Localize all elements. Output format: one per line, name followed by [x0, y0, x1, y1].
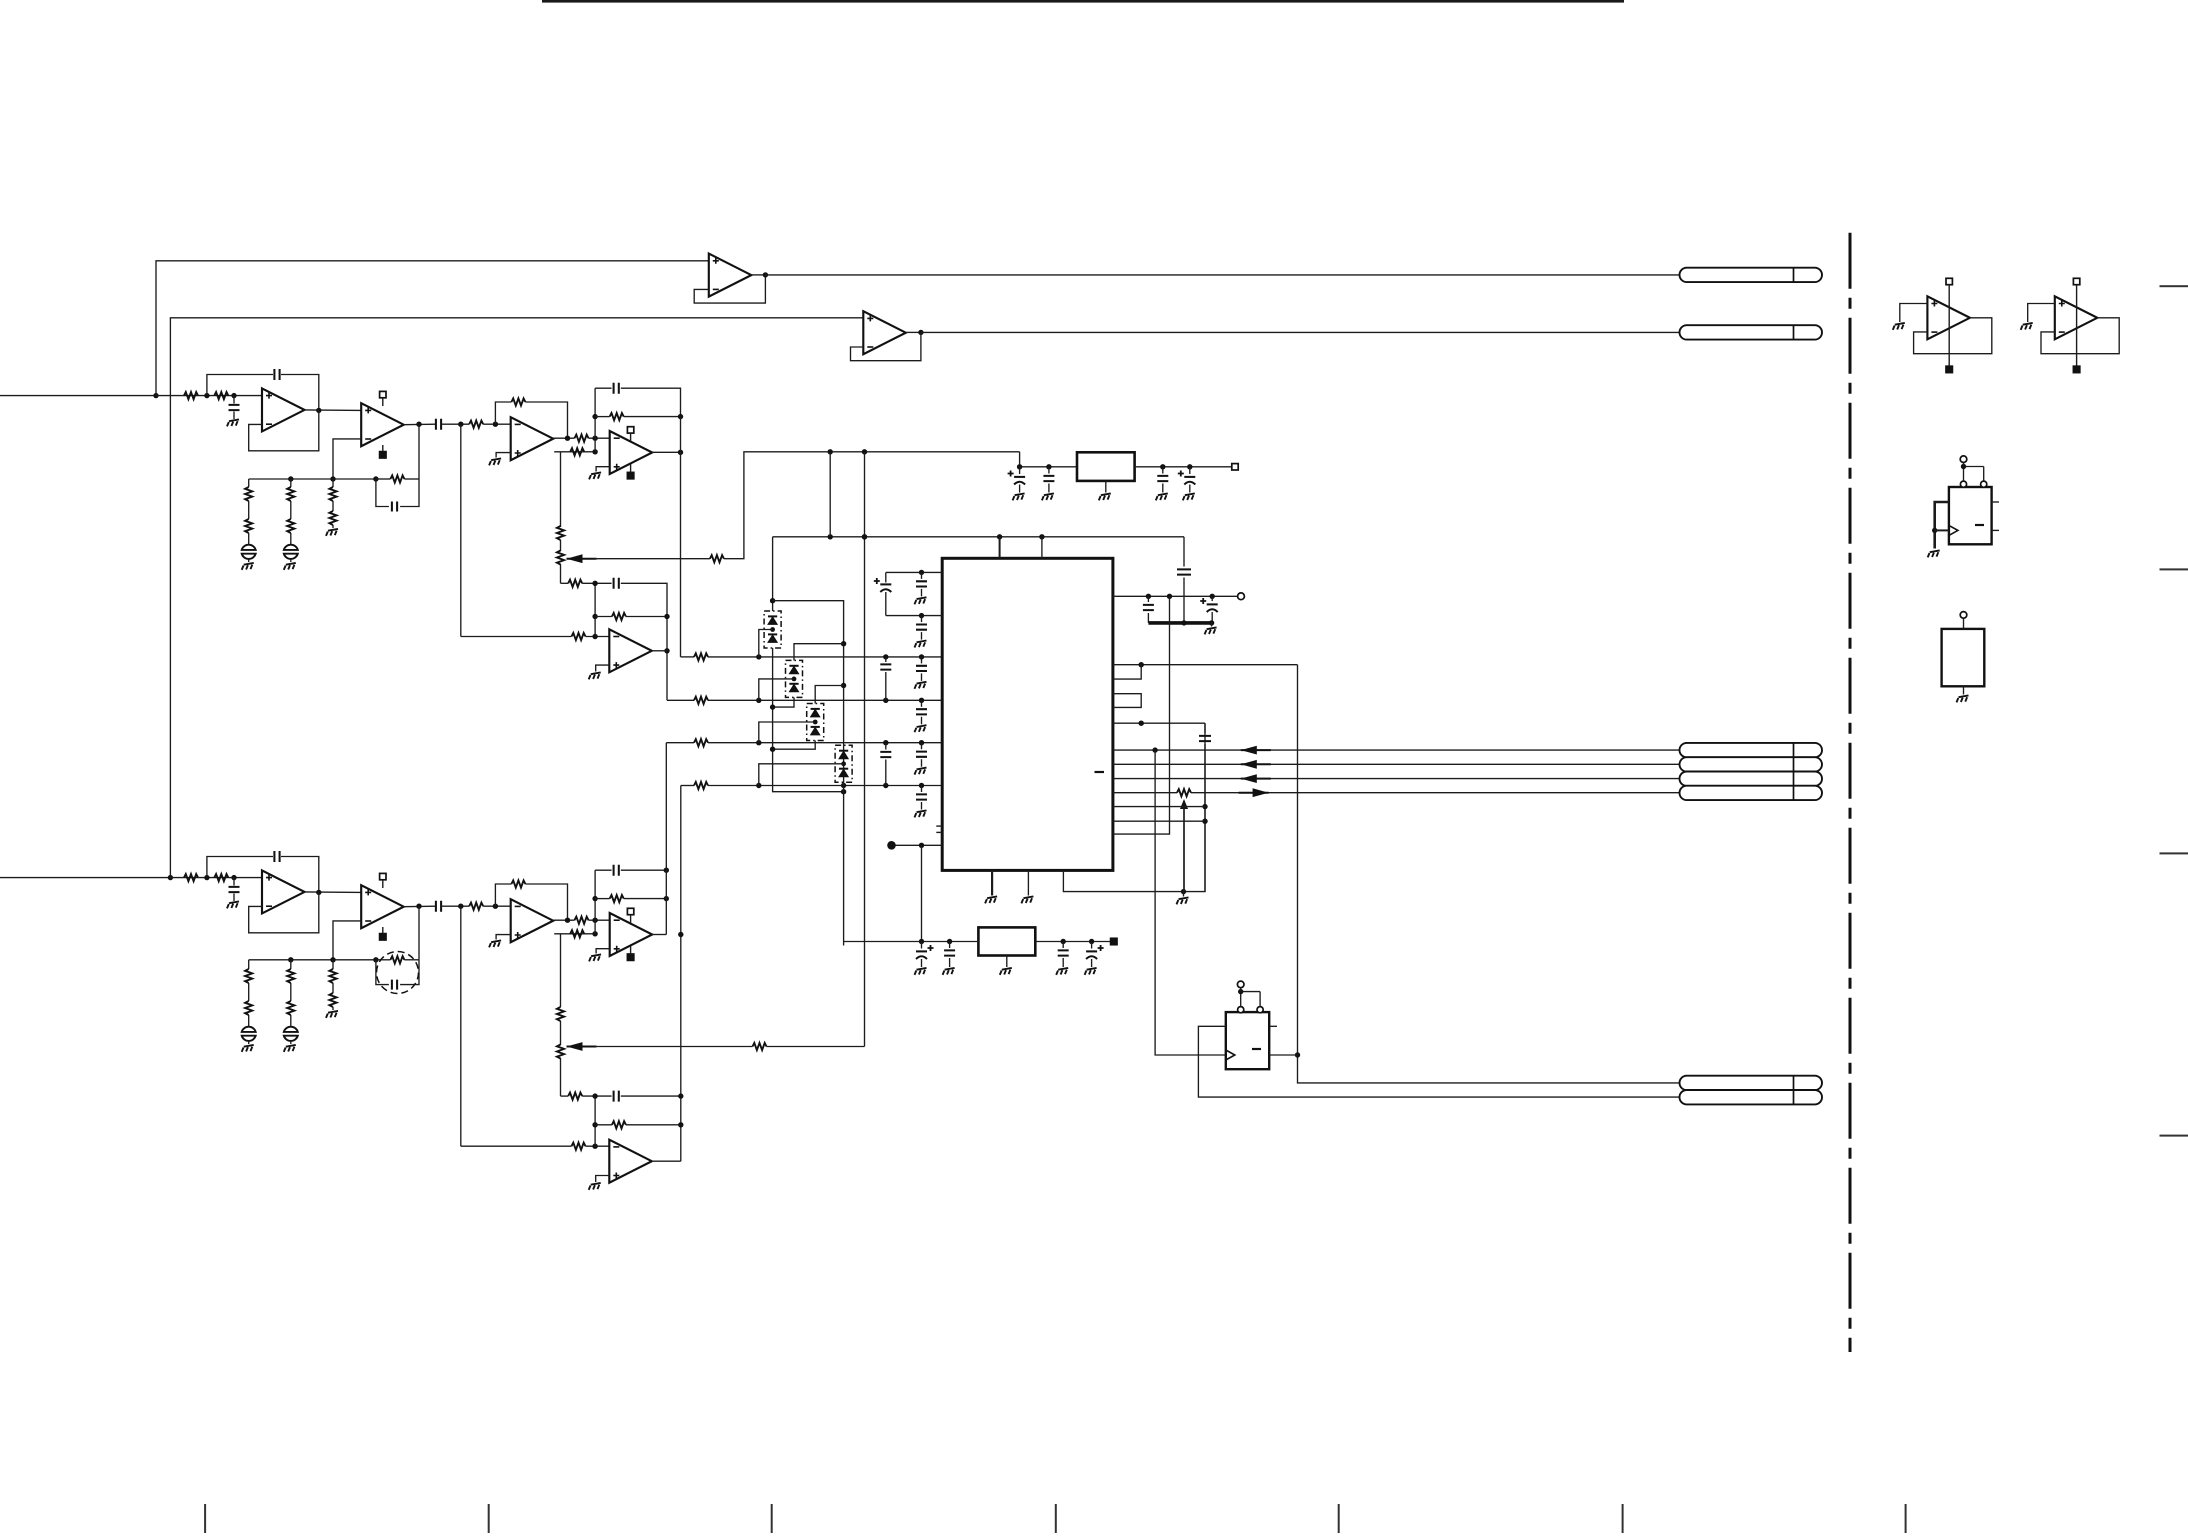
feedback rail of U5A/U5B	[249, 959, 376, 961]
vertical linking supply rails	[829, 452, 831, 537]
vert2 nodes	[841, 641, 846, 646]
wire U5B - feedback to rail lower	[333, 921, 361, 960]
square terminal U5B top	[380, 873, 386, 879]
pot arrow onto R17	[1180, 799, 1188, 809]
diode pair D3	[807, 704, 824, 741]
node U2A -in	[493, 422, 498, 427]
reg2 out nodes	[1061, 939, 1066, 944]
clock symbol inside U10	[1949, 525, 1958, 535]
node	[592, 931, 597, 936]
D2 top lead	[794, 644, 844, 661]
wire buffer B feedback	[851, 332, 921, 360]
stub	[630, 433, 632, 441]
feedback resistor R25 loop of U6A	[495, 884, 511, 906]
IC bottom ground pins	[991, 870, 993, 895]
op-amp U3	[609, 629, 652, 672]
rail nodes	[288, 476, 293, 481]
trim network: wire from -node down to pot	[554, 451, 588, 453]
stub	[1240, 988, 1242, 992]
rail 3 into IC (row 5)	[666, 742, 694, 744]
node	[592, 614, 597, 619]
resistor R24	[390, 956, 404, 963]
parallel capacitor C4 loop	[376, 479, 389, 507]
wire to U7 -in	[461, 1145, 572, 1147]
capacitor C20	[949, 942, 951, 949]
node U2A out	[565, 436, 570, 441]
coil connector CN-D pair	[1680, 1076, 1823, 1090]
U4 top pin circle b	[1257, 1007, 1263, 1013]
vertical to VDD2 rail	[921, 845, 923, 941]
op-amp U2B	[610, 431, 653, 474]
vertical from rail3 to U6B output	[665, 743, 667, 935]
U6B feedback resistor rail R27	[594, 870, 596, 920]
bar nodes	[1181, 620, 1186, 625]
node buffer B out	[918, 330, 923, 335]
nodes on -in vertical	[592, 414, 597, 419]
IC pin wires to cap vertical nodes	[1113, 806, 1205, 808]
wire U1B - feedback to rail	[333, 439, 361, 479]
U10 left pins to ground	[1935, 502, 1949, 549]
pin loop b	[1113, 694, 1141, 708]
node after C3	[458, 422, 463, 427]
electrolytic C12 to ground bar	[1211, 596, 1213, 601]
node cap rail left lower	[592, 1093, 597, 1098]
U4 top pin circle a	[1238, 1007, 1244, 1013]
IC main box	[942, 558, 1113, 870]
long vertical from VREF row down to pin row	[1113, 596, 1170, 834]
pin loop a	[1113, 665, 1141, 679]
IC pin wire to reset-right vertical	[1113, 664, 1298, 666]
electrolytic C22	[1091, 942, 1093, 949]
spare box U11	[1942, 629, 1985, 686]
node	[770, 704, 775, 709]
nodes on U3 right vertical	[664, 614, 669, 619]
resistor R4	[390, 475, 404, 482]
D3 mid tap to rail3	[759, 722, 815, 743]
arrow to VR2 wiper	[567, 1042, 583, 1051]
node	[1295, 1052, 1300, 1057]
reset IC box U4	[1226, 1012, 1269, 1069]
supply rail y=536.8	[773, 536, 1184, 538]
bus wire 1 to coil	[1113, 749, 1680, 751]
capacitor C31 to ground	[233, 878, 235, 886]
trim network lower	[554, 933, 588, 935]
wire input to op-amp U5A	[170, 877, 262, 879]
op-amp buffer B	[863, 311, 906, 354]
wire	[441, 423, 469, 425]
node cap rail right	[678, 414, 683, 419]
wire buffer A output	[751, 274, 765, 276]
open circle terminal above U4	[1237, 981, 1244, 988]
wire input L channel	[0, 395, 156, 397]
stub	[1963, 618, 1965, 629]
bottom border tick marks	[204, 1504, 206, 1533]
U9 +in ground	[2028, 304, 2055, 323]
minus label inside U10	[1975, 524, 1984, 526]
capacitor C21	[1062, 942, 1064, 949]
rail1 nodes	[756, 654, 761, 659]
D1 mid tap to rail1	[759, 630, 773, 657]
electrolytic C19	[921, 942, 923, 949]
black square terminal U6B bottom	[627, 954, 633, 960]
node	[592, 449, 597, 454]
wire input to op-amp U1A	[156, 395, 262, 397]
op-amp U5B	[361, 885, 404, 928]
reg1 nodes	[1017, 464, 1022, 469]
arrow bus4	[1253, 788, 1269, 797]
vertical from C3 node down	[460, 424, 462, 636]
rail536 nodes	[828, 534, 833, 539]
U10 top pins tie	[1963, 467, 1965, 482]
stub	[594, 920, 596, 934]
ground bar	[1148, 621, 1211, 625]
supply rail drop with cap C13	[1183, 537, 1185, 567]
regulator IC box REG1	[1020, 452, 1077, 467]
nodes on cap vertical	[1202, 804, 1207, 809]
arrow to VR1 wiper	[567, 554, 583, 563]
ground at U6B +in	[596, 949, 610, 954]
U7 feedback resistor rail R30	[594, 1096, 596, 1146]
wire U1A feedback loop	[249, 410, 319, 450]
wire U1B out down to rail	[418, 424, 420, 479]
op-amp U6B	[610, 913, 653, 956]
REG1 ground stub	[1105, 481, 1107, 493]
U4 top pins tie	[1240, 992, 1242, 1007]
arrow bus3	[1241, 774, 1257, 783]
resistor R2	[214, 392, 228, 399]
vertical bus1 to reset clock	[1155, 750, 1226, 1055]
minus label inside U4	[1252, 1048, 1261, 1050]
vertical U7 network up to rail 4	[680, 786, 682, 1162]
rail 1 into IC (row 3)	[681, 656, 695, 658]
square terminal U8 top	[1946, 278, 1952, 284]
feedback cap C32 loop lower	[207, 857, 273, 878]
wire VR2 wiper to long vertical	[595, 1046, 753, 1048]
wire to U2B -in	[589, 437, 610, 439]
open circle terminal above U10	[1960, 456, 1967, 463]
U2B feedback resistor rail R13	[594, 388, 596, 438]
stub	[630, 946, 632, 954]
black square terminal U1B bottom	[380, 452, 386, 458]
bias stack 3: resistors R9 R10, ground	[332, 479, 334, 487]
wire to buffer A	[156, 261, 709, 396]
wire U3 output	[652, 650, 667, 652]
stub through body	[1948, 285, 1950, 367]
D4 mid tap to rail4	[759, 764, 844, 786]
square terminal U9 top	[2073, 278, 2079, 284]
dashed circle around R24/C34	[377, 952, 419, 994]
resistor R29	[572, 1143, 586, 1150]
D2 bottom lead	[773, 697, 794, 707]
wire to buffer B	[170, 318, 863, 878]
resistor R23	[469, 903, 483, 910]
ground at U2A +in	[496, 453, 511, 458]
long vertical to R-channel pot wire	[864, 452, 866, 1047]
spare reset IC U10	[1949, 487, 1992, 544]
U10 top pin circle a	[1960, 481, 1966, 487]
wire U1A out to U1B	[305, 409, 362, 412]
ground at U3 +in	[596, 665, 610, 671]
clock symbol inside U4	[1226, 1050, 1235, 1060]
node	[919, 843, 924, 848]
minus label inside IC	[1095, 771, 1105, 773]
ground below bar	[1211, 623, 1213, 627]
node buffer A out	[763, 272, 768, 277]
diode pair D1	[764, 611, 781, 648]
wire to U3 -in	[461, 636, 572, 638]
node	[1238, 989, 1243, 994]
op-amp U1A	[262, 388, 305, 431]
wire U6A output	[553, 919, 574, 921]
wire U2A output	[553, 437, 574, 439]
bias stack 6: resistors, ground	[332, 960, 334, 969]
D3 bottom lead	[773, 741, 816, 750]
op-amp U5A	[262, 870, 305, 913]
op-amp U2A	[511, 417, 554, 460]
decoupling caps x=885.8 bridging rails	[885, 657, 887, 662]
wire to U6A inverting input	[483, 905, 511, 907]
regulator IC box REG2	[978, 927, 1035, 955]
coupling capacitor C33	[436, 901, 441, 912]
black square terminal U8 bottom	[1946, 366, 1952, 372]
U2B feedback capacitor rail C7	[595, 387, 612, 389]
nodes on U7 vertical	[678, 932, 683, 937]
row nodes	[919, 570, 924, 575]
ground at U6A +in	[496, 935, 511, 940]
node	[1152, 747, 1157, 752]
wire U5A out to U5B	[305, 891, 362, 894]
wire buffer B output	[906, 331, 921, 333]
stub	[382, 927, 384, 934]
wire	[586, 1145, 610, 1147]
stub	[1963, 463, 1965, 467]
bus wire 4 with resistor R17 to coil	[1113, 792, 1177, 794]
grounded caps on rows 1-2	[921, 572, 923, 579]
resistor R1	[184, 392, 198, 399]
series capacitor C14 in vertical	[1204, 723, 1206, 733]
U4 left pin to coil CN-D lower	[1198, 1026, 1679, 1097]
filled circle terminal	[887, 841, 896, 850]
open circle terminal VREF	[1238, 593, 1245, 600]
black square terminal VDD2	[1111, 938, 1117, 944]
node input R	[168, 875, 173, 880]
resistor R28 vertical	[560, 934, 562, 1007]
ground at U7 +in	[596, 1176, 610, 1183]
arrow bus2	[1241, 760, 1257, 769]
node	[841, 789, 846, 794]
capacitor C1 to ground	[233, 396, 235, 404]
node	[770, 598, 775, 603]
electrolytic C15	[1019, 467, 1021, 474]
rail nodes lower	[288, 957, 293, 962]
stub	[630, 915, 632, 923]
reset-right vertical to coil A2	[1298, 665, 1680, 1083]
ground at U2B +in	[596, 467, 610, 472]
circle terminal above U11	[1960, 612, 1967, 619]
node	[1139, 662, 1144, 667]
U11 ground stub	[1963, 686, 1965, 694]
node U5A out	[316, 890, 321, 895]
arrow bus1	[1241, 746, 1257, 755]
open square terminal VDD1	[1232, 464, 1238, 470]
VREF row to connector	[1113, 595, 1238, 597]
nodes on 451.8 rail	[828, 449, 833, 454]
U6B feedback capacitor rail C35	[595, 869, 612, 871]
node U5B out	[416, 904, 421, 909]
bias stack 5: resistors, electrolytic, ground	[290, 960, 292, 969]
wire buffer A feedback	[694, 275, 765, 303]
wire U2B output	[652, 451, 680, 453]
rail 4 into IC (row 6)	[681, 785, 694, 787]
IC top pins to supply rail	[999, 537, 1001, 559]
feedback resistor R11 loop of U2A	[495, 402, 511, 424]
right border tick marks	[2160, 285, 2188, 287]
vref nodes	[1146, 594, 1151, 599]
capacitor C17	[1162, 467, 1164, 474]
nodes	[592, 896, 597, 901]
resistor R21	[184, 874, 198, 881]
node	[1961, 464, 1966, 469]
square terminal U2B top	[627, 427, 633, 433]
resistor R26	[575, 917, 589, 924]
wire U6B output	[652, 934, 666, 936]
pin wire row to series cap vertical	[1113, 722, 1205, 724]
stub	[382, 445, 384, 452]
vertical from C33 node down	[460, 906, 462, 1146]
U9 feedback loop	[2041, 318, 2119, 354]
D2 mid tap to rail2	[759, 679, 794, 700]
spare op-amp U8	[1927, 296, 1970, 339]
IC bottom pin path to reset circuit	[1063, 723, 1205, 891]
U3 feedback capacitor rail C8	[561, 582, 569, 584]
wire U7 output	[652, 1160, 681, 1162]
feedback cap C2 loop	[207, 375, 273, 396]
diode pair D4	[835, 745, 852, 782]
U4 right stub	[1269, 1025, 1277, 1027]
node U1A out	[316, 408, 321, 413]
node	[770, 747, 775, 752]
board boundary dash-dot line	[1849, 233, 1852, 1352]
rail2 nodes	[756, 698, 761, 703]
bias stack 4: resistors, electrolytic, ground	[248, 960, 250, 969]
node input L	[153, 393, 158, 398]
square terminal U1B top	[380, 391, 386, 397]
U4 right pin	[1269, 1054, 1297, 1056]
wire to U2A inverting input	[483, 423, 511, 425]
feedback rail of U1A/U1B	[249, 478, 376, 480]
stub through body	[2076, 285, 2078, 367]
wire buffer A to coil CN-A	[765, 274, 1679, 276]
bus wire 3 to coil	[1113, 778, 1680, 780]
black square terminal U9 bottom	[2073, 366, 2079, 372]
op-amp U1B	[361, 403, 404, 446]
op-amp buffer A	[709, 254, 752, 297]
wire U1B output	[404, 423, 436, 426]
U10 top pin circle b	[1981, 481, 1987, 487]
node U2B out	[678, 450, 683, 455]
U7 feedback capacitor rail C36	[561, 1095, 569, 1097]
resistor R15	[572, 633, 586, 640]
capacitor C16	[1048, 467, 1050, 474]
resistor R3	[469, 421, 483, 428]
title bar	[542, 0, 1624, 3]
coil connector CN-B	[1680, 325, 1823, 339]
REG2 output rail	[1035, 941, 1110, 943]
op-amp U6A	[511, 899, 554, 942]
potentiometer VR1	[560, 540, 562, 551]
stub	[382, 398, 384, 406]
U8 +in ground	[1900, 304, 1928, 323]
REG2 ground stub	[1006, 956, 1008, 968]
wire	[586, 636, 610, 638]
U8 feedback loop	[1914, 318, 1992, 354]
wire U5B output	[404, 905, 436, 908]
nodes vert right	[664, 868, 669, 873]
node gnd tap	[1181, 889, 1186, 894]
U10 right pin stubs	[1992, 501, 1999, 503]
wire VR1 wiper to supply rail	[595, 558, 710, 560]
IC left rows 1-2 with electrolytic C10	[886, 571, 942, 573]
cap C11 to ground bar	[1147, 596, 1149, 602]
node	[862, 534, 867, 539]
coil connector CN-C (4 stack)	[1680, 743, 1823, 757]
coupling capacitor C3	[436, 419, 441, 430]
black square terminal U2B bottom	[627, 472, 633, 478]
node U1B out	[416, 422, 421, 427]
rail4 nodes	[756, 783, 761, 788]
grounded caps x=921.5 on rails	[921, 657, 923, 664]
nodes input RC	[204, 393, 209, 398]
vertical U2B out to IC rail 1	[680, 417, 682, 657]
nodes input RC lower	[204, 875, 209, 880]
node U7 -in	[592, 1144, 597, 1149]
node	[1139, 721, 1144, 726]
black square terminal U5B bottom	[380, 934, 386, 940]
REG2 input rail	[844, 941, 979, 943]
resistor R22	[214, 874, 228, 881]
node	[1932, 528, 1937, 533]
rail3 nodes	[756, 740, 761, 745]
electrolytic C18	[1189, 467, 1191, 474]
diode ladder vertical 1	[772, 537, 774, 611]
stub	[630, 464, 632, 472]
node U6B -in	[592, 918, 597, 923]
node U2B -in	[592, 436, 597, 441]
node U3 -in	[592, 634, 597, 639]
rail 2 into IC (row 4)	[667, 699, 694, 701]
U3 feedback resistor rail R16	[594, 583, 596, 636]
wire U5A feedback loop	[249, 892, 319, 932]
wire to U6B -in	[589, 919, 610, 921]
bus wire 2 to coil	[1113, 763, 1680, 765]
node	[592, 1122, 597, 1127]
resistor R12	[575, 435, 589, 442]
node after C33	[458, 904, 463, 909]
stub	[594, 438, 596, 452]
bias stack 2: resistors R7 R8, electrolytic C6, ground	[290, 479, 292, 487]
node cap rail left	[592, 581, 597, 586]
spare op-amp U9	[2055, 296, 2098, 339]
REG1 output rail	[1135, 466, 1232, 468]
node U6A out	[565, 918, 570, 923]
wire U5B out down to rail	[418, 906, 420, 960]
IC left row with filled-circle test point	[896, 844, 943, 846]
stub	[382, 880, 384, 888]
diode pair D2	[786, 660, 803, 697]
square terminal U6B top	[627, 908, 633, 914]
D3 top lead	[815, 686, 843, 704]
reg2 in nodes	[919, 939, 924, 944]
